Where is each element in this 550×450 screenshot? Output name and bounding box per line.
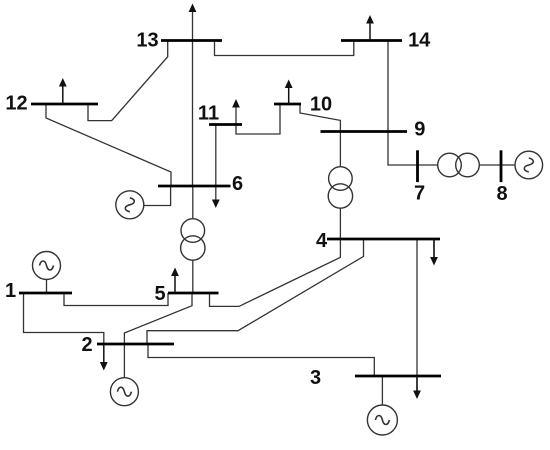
svg-text:6: 6 [232, 173, 243, 195]
svg-text:12: 12 [5, 93, 27, 115]
svg-text:14: 14 [408, 29, 431, 51]
svg-text:8: 8 [496, 183, 507, 205]
svg-text:2: 2 [81, 334, 92, 356]
svg-text:3: 3 [310, 367, 321, 389]
svg-text:5: 5 [154, 283, 165, 305]
svg-text:13: 13 [136, 30, 158, 52]
svg-text:4: 4 [316, 230, 328, 252]
svg-text:1: 1 [5, 280, 16, 302]
svg-text:7: 7 [414, 183, 425, 205]
svg-text:11: 11 [198, 103, 219, 125]
svg-text:9: 9 [414, 119, 425, 141]
svg-text:10: 10 [310, 94, 332, 116]
